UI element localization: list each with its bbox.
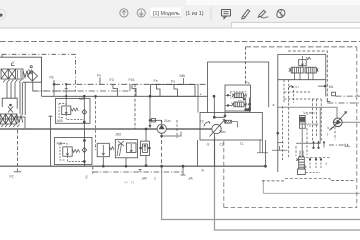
comment icon bbox=[222, 10, 231, 19]
svg-text:T3: T3 bbox=[200, 120, 204, 124]
left assembly dash-dot boundary bbox=[2, 54, 76, 91]
corner into line S bbox=[41, 82, 43, 96]
valve 282 bbox=[115, 140, 137, 167]
junction dot S x150 bbox=[149, 95, 151, 97]
annotation tab white strip bbox=[232, 22, 360, 27]
drain arrows cluster bbox=[313, 141, 325, 148]
cluster marks right of valve bbox=[310, 159, 321, 168]
dashed stub right of valve bbox=[306, 172, 320, 174]
junction dot A00-1 bbox=[83, 121, 85, 123]
central lower box bbox=[200, 113, 262, 141]
pilot line Pe vertical bbox=[53, 80, 55, 96]
svg-text:(1 из 1): (1 из 1) bbox=[186, 11, 204, 17]
junction dot A00-2 bottom bbox=[83, 161, 85, 163]
bank2 outlet elbow bbox=[13, 117, 25, 128]
hatch rect xx bbox=[225, 120, 232, 123]
pump 28xx drop dark bbox=[214, 134, 216, 167]
pencil icon bbox=[242, 10, 250, 19]
svg-text:øM: øM bbox=[142, 176, 147, 180]
hose vertical x320 bbox=[296, 107, 320, 143]
CV feed from main line bbox=[145, 129, 147, 166]
dashed vertical x135 bbox=[134, 84, 136, 129]
K2 dashed drop bbox=[17, 130, 19, 171]
line hatch to elbow bbox=[231, 122, 237, 128]
right dashed verticals bbox=[283, 99, 336, 160]
highlighter icon bbox=[258, 10, 269, 18]
pump 21xx circle bbox=[157, 124, 166, 133]
pump 28xx circle bbox=[212, 124, 221, 133]
pump21 suction arrow bbox=[161, 120, 163, 122]
pump21 riser bbox=[161, 120, 163, 124]
big dashed boundary bottom bbox=[224, 207, 357, 209]
stub inner box to lower box bbox=[224, 111, 226, 117]
dash-dot line Q bbox=[33, 90, 130, 92]
small seg y150 right bbox=[272, 146, 288, 150]
R1 inner dashed box bbox=[288, 51, 327, 103]
drain hose pump28 bbox=[215, 137, 360, 231]
stroking cylinder bbox=[300, 116, 306, 157]
svg-text:F01: F01 bbox=[129, 78, 135, 82]
left valve V1 spring bbox=[23, 71, 29, 78]
check valve CV box bbox=[140, 141, 151, 156]
svg-text:Pe: Pe bbox=[50, 76, 54, 80]
page name dropdown white pill bbox=[151, 8, 182, 18]
vertical x150 with arrow bbox=[149, 96, 151, 127]
toolbar top-right lighter strip bbox=[186, 0, 360, 5]
pilot valve P1 bbox=[225, 92, 247, 99]
left valve V1 pilot circle bbox=[30, 66, 32, 68]
tick Fs1 bbox=[99, 78, 101, 85]
junction dot S x84 bbox=[83, 95, 85, 97]
svg-text:F3: F3 bbox=[110, 78, 114, 82]
svg-text:T1: T1 bbox=[240, 142, 244, 146]
M1 port arrow bbox=[318, 85, 326, 87]
svg-text:Pc: Pc bbox=[246, 81, 250, 85]
junction dot S x214 bbox=[213, 95, 215, 97]
dashed vertical to Pc bbox=[245, 47, 247, 85]
R1 relief valve top bbox=[299, 56, 311, 67]
svg-text:Fe: Fe bbox=[154, 79, 158, 83]
A00 block 2 diamond bbox=[82, 148, 87, 153]
vertical x197 box to tank bbox=[197, 140, 199, 166]
pump 2 variable arrow bbox=[331, 112, 347, 131]
hand pump curved arrow bbox=[288, 86, 292, 90]
dashed segment y180 left bbox=[262, 180, 284, 182]
svg-text:T4 T2: T4 T2 bbox=[124, 181, 135, 185]
dashed bottom edge right assembly bbox=[285, 179, 355, 181]
toolbar bottom border bbox=[0, 28, 360, 29]
frame line y193 bbox=[263, 180, 360, 193]
hose from central box to pump2 bbox=[278, 107, 337, 117]
port A drop bbox=[181, 166, 186, 175]
A00 block 1 diamond bbox=[82, 110, 87, 115]
L port marks bbox=[345, 144, 350, 147]
right box R1 bbox=[278, 55, 326, 173]
pump 21xx triangle bbox=[159, 124, 165, 129]
tank line y166 bbox=[0, 165, 266, 167]
D box bbox=[332, 92, 336, 96]
pilot valve bottom (vertical) bbox=[296, 157, 306, 169]
step F3 bbox=[113, 84, 118, 96]
pump 21xx drop arrow bbox=[161, 137, 163, 139]
svg-text:g: g bbox=[86, 175, 88, 179]
vertical x214 feed bbox=[214, 96, 225, 117]
dashed drop x92 bbox=[92, 167, 94, 175]
dash-dot line right from D bbox=[336, 95, 360, 97]
junction dot x265 bbox=[265, 165, 267, 167]
T3 curved arrow bbox=[204, 122, 210, 127]
A00 vertical line x84 bbox=[83, 96, 85, 129]
dark port arrows above pilot valve bbox=[299, 154, 304, 156]
L port mark bbox=[327, 98, 330, 101]
svg-text:a: a bbox=[273, 103, 275, 107]
vertical x198 bbox=[197, 84, 199, 112]
inner dashed lines R1 bbox=[284, 80, 294, 103]
junction dot filter bbox=[149, 119, 151, 121]
port tick x140 bbox=[138, 169, 141, 172]
ports dash-dot line P bbox=[54, 83, 208, 85]
left assembly solid box bbox=[0, 57, 42, 82]
relief valve RV1 bbox=[97, 143, 114, 166]
step Fe2 bbox=[157, 84, 161, 96]
svg-text:Fs: Fs bbox=[171, 80, 175, 84]
filter rect bbox=[152, 119, 156, 122]
filter line to pump21 bbox=[150, 119, 162, 121]
pilot valve P2 bbox=[225, 99, 247, 107]
junction dot x214 bbox=[213, 116, 215, 118]
boundary dashed line 2 right bbox=[246, 46, 357, 48]
left valve bank 2 body bbox=[0, 114, 17, 124]
drain band dash-dot line y172 bbox=[93, 171, 183, 173]
left valve bank 2 top dot bbox=[10, 104, 12, 106]
left valve V1 top bracket bbox=[12, 62, 15, 66]
A00-2 vertical line x84 bbox=[83, 129, 85, 166]
R1 valve drops bbox=[295, 73, 314, 80]
left valve bank 2 cross symbol bbox=[8, 107, 13, 113]
partial icon at left toolbar edge bbox=[0, 9, 6, 19]
svg-text:M1: M1 bbox=[329, 85, 334, 89]
R1 spool valve left bbox=[289, 67, 303, 73]
page-up button bbox=[120, 9, 128, 17]
dark corner blob inner box bbox=[245, 108, 250, 110]
drain hose pump21 bbox=[162, 166, 360, 219]
boundary dash-dot line top bbox=[0, 41, 360, 43]
A00 block 2 relief valve bbox=[60, 144, 84, 162]
dashes y157 right bbox=[306, 156, 330, 158]
junction dots x249 bbox=[249, 103, 251, 105]
drain vertical x50 bbox=[49, 116, 53, 166]
dash-dot line y145 right bbox=[329, 144, 344, 146]
page-down button bbox=[137, 9, 145, 17]
gray hose lines bbox=[162, 107, 360, 230]
step Fs2 bbox=[174, 84, 178, 96]
junction dot Pe bbox=[53, 83, 55, 85]
svg-text:Fe: Fe bbox=[97, 74, 101, 78]
valve V1 bottom hatching bbox=[3, 80, 22, 83]
svg-text:282: 282 bbox=[116, 133, 122, 137]
junction dot CV main bbox=[145, 128, 147, 130]
svg-text:MB: MB bbox=[180, 74, 186, 78]
svg-text:A00: A00 bbox=[57, 119, 63, 123]
svg-text:k: k bbox=[328, 126, 330, 130]
pump 2 triangle bbox=[337, 120, 342, 125]
main mid line S y96.3 bbox=[42, 95, 208, 97]
hose pump2 outlet bbox=[342, 121, 360, 123]
central box right edge lower bbox=[268, 95, 270, 107]
pump 21xx drop dark bbox=[161, 133, 163, 137]
dash-dot line y103 bbox=[327, 102, 360, 104]
junction dot A00-2 top bbox=[83, 140, 85, 142]
central box upper bbox=[208, 62, 269, 113]
filter F diamond bbox=[27, 71, 37, 81]
pilot box above bank2 bbox=[2, 98, 17, 109]
svg-text:[1] Модель: [1] Модель bbox=[153, 11, 180, 17]
left valve V1 block body bbox=[1, 69, 23, 79]
filter outlet corner bbox=[32, 82, 34, 91]
elbow from drop to x181 bbox=[162, 132, 181, 137]
k arrow bbox=[330, 127, 335, 130]
dashed vertical x177 bbox=[176, 120, 178, 138]
pump 28xx variable arrow bbox=[210, 120, 226, 137]
A00 block 1 box bbox=[55, 99, 90, 124]
A00 block 1 relief valve bbox=[59, 84, 84, 120]
left valve bank 2 spring bbox=[17, 116, 23, 123]
eraser icon bbox=[277, 9, 285, 17]
inner valve box bbox=[225, 85, 251, 111]
svg-text:T: T bbox=[327, 133, 329, 137]
K2 tick bbox=[14, 171, 21, 173]
R1 spool valve right bbox=[305, 67, 318, 73]
junction dot CV tank bbox=[145, 165, 147, 167]
svg-text:C2: C2 bbox=[220, 143, 224, 147]
step F01 bbox=[132, 84, 136, 96]
svg-text:21xx: 21xx bbox=[164, 119, 171, 123]
big dashed boundary left lower bbox=[223, 141, 225, 208]
orifice row rect bbox=[151, 85, 196, 97]
double vertical T1 stubs bbox=[257, 140, 268, 153]
R1 divider line bbox=[278, 79, 326, 81]
junction dot port A bbox=[182, 165, 184, 167]
big dashed boundary right edge bbox=[356, 47, 358, 208]
bottom small box bbox=[298, 169, 306, 175]
drop lines from valve V1 bbox=[7, 82, 20, 114]
svg-text:K2: K2 bbox=[10, 175, 14, 179]
left valve V1 pilot solenoid bbox=[29, 70, 33, 75]
svg-text:2: 2 bbox=[154, 176, 156, 180]
pilot feed vertical x95 bbox=[95, 96, 97, 150]
A00 block 2 box bbox=[55, 138, 93, 165]
pump 2 circle bbox=[334, 118, 343, 127]
main pump line y129 bbox=[0, 128, 212, 130]
toolbar background bbox=[0, 0, 360, 28]
left valve bank 2 hatching bbox=[1, 125, 20, 128]
right tank vertical x265 bbox=[265, 140, 267, 166]
svg-text:28xx: 28xx bbox=[219, 130, 226, 134]
double vertical lines to lower bank bbox=[22, 82, 25, 115]
vertical x249 between boxes bbox=[249, 98, 251, 113]
toolbar separator bbox=[210, 7, 213, 21]
